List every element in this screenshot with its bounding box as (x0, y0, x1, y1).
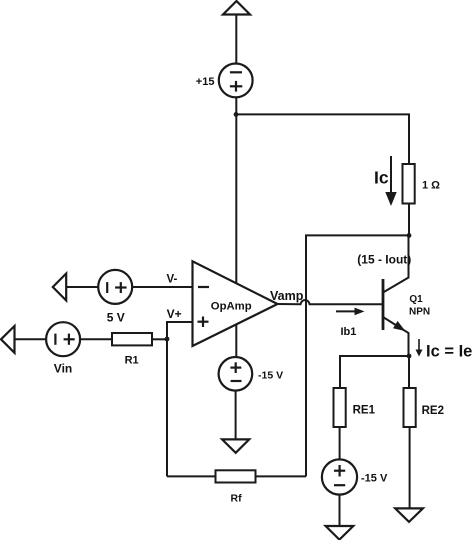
wire port to Vin source (15, 338, 46, 340)
power port +15 top (223, 1, 250, 15)
wire Rf row right (256, 475, 307, 477)
transistor Q1 emitter arrow (393, 321, 405, 331)
wire -15V to ground (339, 495, 341, 526)
svg-text:(15 - Iout): (15 - Iout) (357, 253, 411, 267)
op-amp minus input sign (198, 286, 209, 288)
current arrow Ic (385, 156, 396, 206)
svg-text:1 Ω: 1 Ω (422, 180, 440, 192)
svg-text:R1: R1 (125, 354, 139, 366)
wire 5V to op-amp V- input (132, 286, 192, 288)
wire R1 to V+ node (152, 338, 167, 340)
wire top rail to 1 ohm (236, 114, 409, 164)
wire supply rail down through op-amp (235, 97, 237, 357)
node junction dot top (234, 112, 239, 117)
resistor 1 ohm (403, 164, 415, 204)
svg-text:RE1: RE1 (353, 404, 376, 416)
wire Vin to R1 (80, 338, 112, 340)
wire RE2 to ground (409, 427, 411, 508)
wire 1 ohm to collector node (408, 204, 410, 236)
voltage source -15V (emitter) (322, 459, 357, 494)
wire -15V supply to ground (235, 391, 237, 440)
svg-text:NPN: NPN (409, 307, 430, 318)
svg-text:Q1: Q1 (409, 294, 423, 305)
op-amp plus input sign (198, 321, 209, 323)
svg-text:-15 V: -15 V (258, 369, 283, 381)
svg-text:Vamp: Vamp (270, 289, 304, 303)
svg-text:Rf: Rf (231, 493, 243, 505)
op-amp U1 (193, 261, 278, 346)
resistor R1 (112, 333, 152, 345)
output wire with hop over feedback wire (278, 300, 384, 304)
node junction dot collector (407, 233, 412, 238)
svg-text:Ic = Ie: Ic = Ie (426, 343, 472, 361)
wire feedback: collector node left and down to Rf (306, 235, 409, 476)
input port arrow Vin row (1, 326, 15, 353)
svg-text:V-: V- (167, 274, 178, 286)
wire emitter node to RE1 (340, 356, 409, 388)
ground (RE2 branch) (395, 508, 423, 522)
voltage source 5V (98, 270, 132, 304)
resistor RE2 (404, 388, 416, 427)
wire RE1 to -15V source (339, 427, 341, 459)
wire Rf row left (167, 475, 216, 477)
svg-text:5 V: 5 V (107, 311, 125, 325)
wire V+ node step up to op-amp + input (167, 322, 193, 339)
svg-text:-15 V: -15 V (361, 472, 388, 484)
svg-text:Ib1: Ib1 (341, 326, 357, 338)
ground (RE1 branch) (326, 526, 354, 540)
node junction dot V+ (165, 337, 170, 342)
wire emitter node to RE2 (408, 356, 410, 388)
node junction dot emitter (407, 354, 412, 359)
svg-text:OpAmp: OpAmp (211, 301, 252, 313)
transistor Q1 collector lead (383, 235, 409, 292)
svg-text:Vin: Vin (54, 362, 72, 376)
resistor RE1 (334, 388, 346, 427)
voltage source -15V (op-amp supply) (219, 357, 253, 391)
wire port to 5V source (66, 286, 98, 288)
ground (op-amp supply) (222, 439, 249, 452)
svg-text:Ic: Ic (374, 168, 389, 188)
svg-text:+15: +15 (196, 76, 215, 88)
svg-text:RE2: RE2 (422, 405, 444, 417)
transistor Q1 base bar (382, 279, 385, 330)
input port arrow 5V row (53, 274, 66, 301)
svg-text:V+: V+ (167, 307, 182, 321)
voltage source Vin (46, 322, 80, 356)
wire top port to +15 source (235, 15, 237, 64)
transistor Q1 emitter lead (383, 317, 409, 356)
wire V+ node down to Rf (166, 339, 168, 476)
current arrow Ic = Ie (416, 339, 423, 357)
current arrow Ib1 (336, 308, 365, 316)
resistor Rf (216, 470, 256, 482)
voltage source +15 (219, 64, 253, 98)
